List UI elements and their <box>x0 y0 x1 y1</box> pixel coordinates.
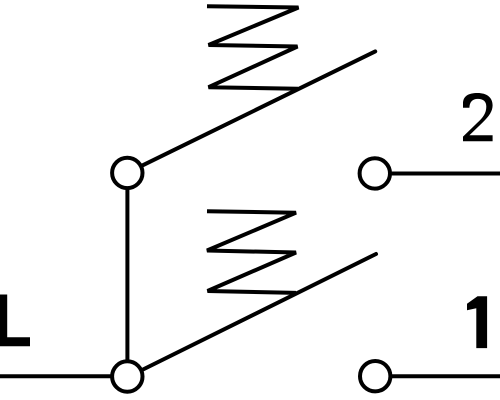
label 1 <box>467 296 487 348</box>
node (upper pole terminal circle) <box>112 158 142 188</box>
node (lower pole terminal circle, L) <box>112 361 142 391</box>
label 2 <box>463 93 493 141</box>
label L <box>0 295 30 347</box>
spring S2 (upper zigzag) <box>207 6 299 89</box>
node (terminal 1 circle) <box>360 361 390 391</box>
wire (terminal 2, right) <box>391 172 500 176</box>
wire (vertical link between pole terminals) <box>125 188 129 362</box>
wire (terminal 1, bottom right) <box>392 374 500 378</box>
wire (L feed, bottom left) <box>0 374 112 378</box>
node (terminal 2 circle) <box>360 158 390 188</box>
switch lever (upper contact blade) <box>141 51 375 166</box>
spring S1 (lower zigzag) <box>207 211 296 293</box>
switch lever (lower contact blade) <box>141 254 376 371</box>
